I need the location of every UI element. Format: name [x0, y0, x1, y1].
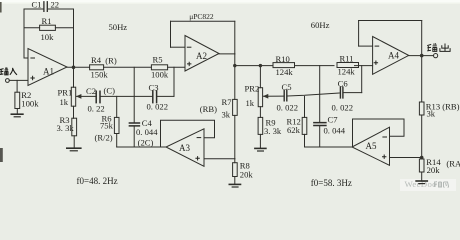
- svg-text:50Hz: 50Hz: [109, 22, 128, 32]
- svg-text:C2: C2: [86, 86, 96, 96]
- svg-text:0. 022: 0. 022: [147, 101, 168, 111]
- svg-text:3k: 3k: [427, 109, 436, 119]
- svg-text:R10: R10: [276, 54, 290, 64]
- svg-text:75k: 75k: [100, 120, 114, 130]
- svg-text:3k: 3k: [222, 109, 231, 119]
- svg-text:0. 044: 0. 044: [324, 125, 346, 135]
- svg-text:20k: 20k: [427, 165, 441, 175]
- svg-text:100k: 100k: [151, 69, 169, 79]
- svg-text:1k: 1k: [60, 97, 69, 107]
- svg-text:1k: 1k: [246, 98, 255, 108]
- svg-text:R7: R7: [222, 97, 233, 107]
- svg-text:60Hz: 60Hz: [311, 20, 330, 30]
- svg-text:3. 3k: 3. 3k: [264, 126, 282, 136]
- svg-text:f0=48. 2Hz: f0=48. 2Hz: [77, 176, 118, 186]
- svg-text:(R): (R): [105, 56, 117, 66]
- svg-text:(C): (C): [104, 85, 116, 95]
- svg-text:A2: A2: [196, 51, 207, 61]
- svg-text:124k: 124k: [276, 67, 294, 77]
- svg-text:A5: A5: [366, 141, 377, 151]
- svg-text:10k: 10k: [41, 32, 55, 42]
- svg-text:C3: C3: [149, 83, 159, 93]
- svg-text:(2C): (2C): [138, 137, 154, 147]
- svg-text:R4: R4: [91, 55, 102, 65]
- svg-text:R11: R11: [340, 54, 354, 64]
- svg-text:C7: C7: [328, 115, 339, 125]
- svg-text:C1: C1: [32, 0, 42, 10]
- svg-text:3. 3k: 3. 3k: [57, 123, 75, 133]
- svg-text:20k: 20k: [240, 169, 254, 179]
- svg-text:R1: R1: [42, 16, 52, 26]
- svg-text:f0=58. 3Hz: f0=58. 3Hz: [311, 178, 352, 188]
- svg-text:A1: A1: [43, 67, 54, 77]
- svg-text:(RB): (RB): [200, 104, 217, 114]
- svg-text:0. 044: 0. 044: [136, 127, 158, 137]
- svg-text:124k: 124k: [338, 67, 356, 77]
- svg-text:A3: A3: [179, 143, 190, 153]
- svg-text:R5: R5: [153, 54, 163, 64]
- svg-text:C5: C5: [282, 82, 292, 92]
- svg-text:(RA): (RA): [446, 159, 460, 169]
- svg-text:A4: A4: [388, 51, 399, 61]
- svg-text:(R/2): (R/2): [95, 132, 113, 142]
- svg-text:0. 022: 0. 022: [332, 103, 353, 113]
- svg-text:100k: 100k: [21, 99, 39, 109]
- svg-text:C6: C6: [338, 79, 349, 89]
- svg-text:22: 22: [51, 0, 60, 10]
- svg-text:μPC822: μPC822: [189, 12, 214, 21]
- svg-text:0. 022: 0. 022: [277, 103, 298, 113]
- svg-text:PR2: PR2: [245, 83, 260, 93]
- svg-text:150k: 150k: [91, 70, 109, 80]
- svg-text:62k: 62k: [287, 125, 301, 135]
- svg-text:0. 22: 0. 22: [88, 103, 105, 113]
